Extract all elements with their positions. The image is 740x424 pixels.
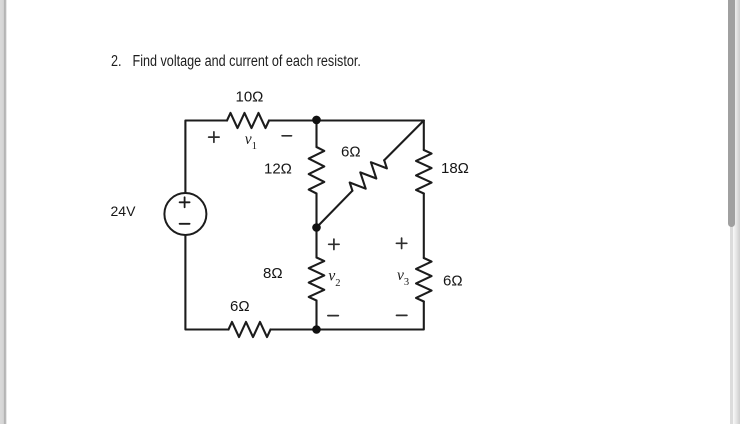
resistor R6 diagonal 6ohm [350, 160, 387, 191]
wire top-left to R10 [185, 121, 227, 194]
v2 minus sign [328, 315, 338, 317]
diagonal wire upper part [384, 121, 424, 161]
svg-text:v2: v2 [328, 268, 340, 290]
resistor R8 8ohm [309, 258, 325, 301]
svg-text:6Ω: 6Ω [341, 143, 361, 160]
v1 minus sign [282, 135, 291, 137]
wire left branch lower [185, 235, 228, 330]
wire middle branch bottom [315, 301, 317, 330]
node dot bottom [312, 325, 321, 334]
wire bottom to right corner [271, 302, 424, 330]
svg-text:24V: 24V [111, 203, 137, 219]
source minus sign [180, 223, 190, 225]
v3 minus sign [397, 314, 407, 316]
v2 plus sign [329, 243, 339, 245]
v3 plus sign [396, 242, 406, 244]
diagonal wire lower part [317, 191, 353, 228]
left page edge gutter [0, 0, 8, 424]
resistor R12 12ohm [309, 147, 325, 194]
resistor R6 right 6ohm [416, 258, 432, 302]
svg-text:10Ω: 10Ω [236, 89, 264, 106]
voltage source circle [164, 193, 206, 235]
svg-text:8Ω: 8Ω [263, 265, 283, 282]
v1 plus sign [209, 132, 407, 316]
svg-text:12Ω: 12Ω [264, 160, 292, 177]
scrollbar thumb [728, 0, 735, 227]
resistor R18 18ohm [416, 150, 432, 194]
svg-text:6Ω: 6Ω [230, 298, 250, 315]
svg-text:v1: v1 [245, 131, 257, 152]
svg-text:v3: v3 [397, 267, 409, 288]
resistor R1 10ohm [227, 113, 269, 128]
source plus sign [180, 197, 190, 224]
resistor R6 bottom 6ohm [229, 322, 271, 337]
problem title [111, 53, 361, 71]
scrollbar track [730, 220, 734, 424]
wire middle branch top [315, 121, 317, 148]
right page edge gutter [732, 0, 740, 424]
wire R10 to top-right corner [269, 121, 424, 151]
wire middle branch mid [315, 194, 317, 258]
svg-text:18Ω: 18Ω [441, 160, 469, 177]
svg-text:6Ω: 6Ω [443, 273, 463, 290]
wire right branch mid [423, 194, 425, 259]
node dot top [312, 116, 321, 125]
node dot middle [312, 223, 321, 232]
